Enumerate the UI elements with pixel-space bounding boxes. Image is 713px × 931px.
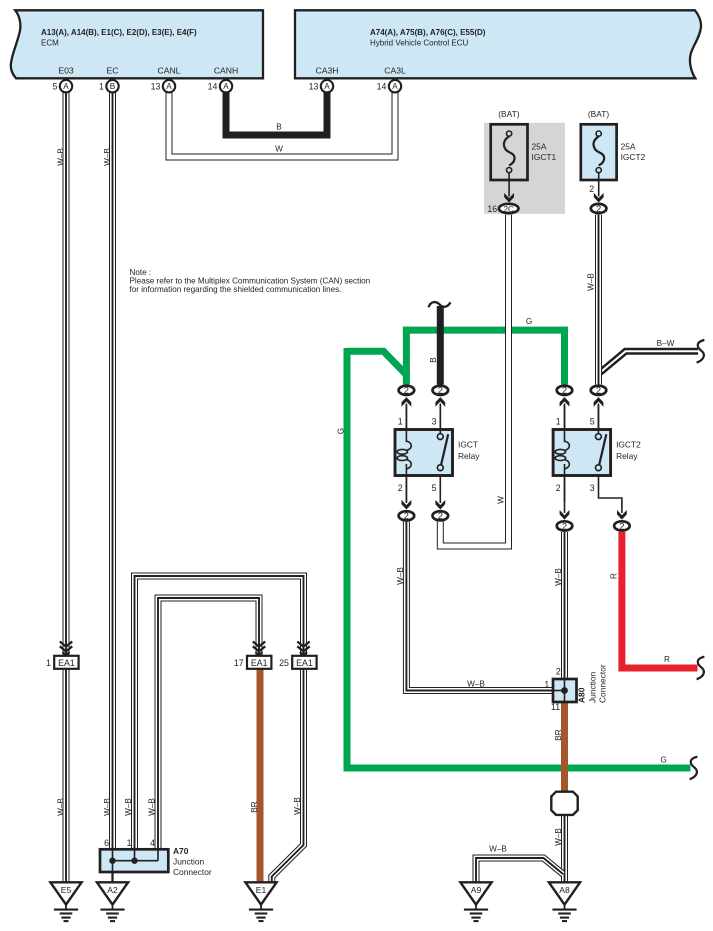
svg-text:25A: 25A (532, 142, 547, 152)
svg-text:R: R (664, 655, 670, 664)
svg-text:2: 2 (438, 510, 443, 521)
svg-text:EC: EC (107, 66, 119, 76)
svg-text:(BAT): (BAT) (588, 109, 609, 119)
svg-text:A9: A9 (471, 885, 482, 895)
svg-text:IGCT1: IGCT1 (532, 152, 557, 162)
svg-text:W–B: W–B (467, 679, 485, 688)
svg-text:W–B: W–B (148, 798, 157, 816)
svg-text:2C: 2C (504, 205, 514, 214)
svg-text:25: 25 (279, 658, 289, 668)
svg-text:3: 3 (590, 483, 595, 493)
svg-text:W–B: W–B (554, 828, 563, 846)
svg-text:B: B (110, 82, 116, 91)
svg-text:Relay: Relay (616, 451, 638, 461)
svg-text:5: 5 (432, 483, 437, 493)
svg-text:A: A (392, 82, 398, 91)
svg-text:2: 2 (398, 483, 403, 493)
svg-text:5: 5 (590, 417, 595, 427)
svg-text:1: 1 (398, 417, 403, 427)
svg-text:W–B: W–B (124, 798, 133, 816)
svg-text:3: 3 (432, 417, 437, 427)
svg-text:B–W: B–W (657, 339, 675, 348)
svg-text:R: R (609, 573, 618, 579)
svg-text:11: 11 (551, 702, 560, 712)
svg-text:1: 1 (127, 838, 132, 848)
svg-text:2: 2 (589, 184, 594, 194)
svg-text:2: 2 (596, 203, 601, 214)
svg-text:A74(A), A75(B), A76(C), E55(D): A74(A), A75(B), A76(C), E55(D) (370, 28, 486, 37)
svg-text:14: 14 (377, 82, 387, 92)
svg-text:1: 1 (544, 680, 549, 690)
svg-text:2: 2 (438, 385, 443, 396)
svg-text:13: 13 (309, 82, 319, 92)
svg-text:W: W (275, 145, 283, 154)
svg-text:6: 6 (104, 838, 109, 848)
svg-text:2: 2 (556, 667, 561, 677)
svg-text:1: 1 (556, 417, 561, 427)
svg-text:A13(A), A14(B), E1(C), E2(D),: A13(A), A14(B), E1(C), E2(D), E3(E), E4(… (41, 28, 197, 37)
svg-text:A: A (223, 82, 229, 91)
svg-text:IGCT: IGCT (458, 440, 478, 450)
svg-text:A: A (324, 82, 330, 91)
svg-text:Connector: Connector (598, 664, 608, 703)
svg-text:A: A (166, 82, 172, 91)
svg-text:2: 2 (404, 385, 409, 396)
svg-text:A: A (63, 82, 69, 91)
svg-text:14: 14 (208, 82, 218, 92)
svg-text:CA3L: CA3L (384, 66, 406, 76)
svg-text:2: 2 (562, 385, 567, 396)
svg-text:25A: 25A (621, 142, 636, 152)
svg-text:1: 1 (46, 658, 51, 668)
svg-text:Junction: Junction (173, 856, 205, 866)
svg-text:E1: E1 (256, 885, 267, 895)
svg-text:W–B: W–B (57, 148, 66, 166)
svg-text:G: G (660, 756, 666, 765)
svg-text:A8: A8 (559, 885, 570, 895)
svg-text:(BAT): (BAT) (498, 109, 519, 119)
svg-text:5: 5 (52, 82, 57, 92)
svg-text:W–B: W–B (57, 798, 66, 816)
svg-text:Junction: Junction (587, 671, 597, 703)
svg-text:1: 1 (99, 82, 104, 92)
svg-text:B: B (429, 357, 438, 363)
svg-text:IGCT2: IGCT2 (616, 440, 641, 450)
svg-text:17: 17 (234, 658, 244, 668)
svg-text:E03: E03 (58, 66, 74, 76)
svg-text:IGCT2: IGCT2 (621, 152, 646, 162)
svg-text:2: 2 (556, 483, 561, 493)
svg-text:EA1: EA1 (58, 658, 75, 668)
svg-text:for information regarding the: for information regarding the shielded c… (130, 285, 342, 294)
svg-text:W–B: W–B (554, 568, 563, 586)
svg-text:CANH: CANH (214, 66, 238, 76)
svg-text:A2: A2 (107, 885, 118, 895)
svg-text:2: 2 (619, 520, 624, 531)
svg-text:4: 4 (150, 838, 155, 848)
svg-text:EA1: EA1 (251, 658, 268, 668)
svg-text:Hybrid Vehicle Control ECU: Hybrid Vehicle Control ECU (370, 38, 468, 47)
svg-text:CA3H: CA3H (316, 66, 339, 76)
svg-text:EA1: EA1 (296, 658, 313, 668)
svg-text:W–B: W–B (103, 798, 112, 816)
svg-text:G: G (526, 317, 532, 326)
svg-text:2: 2 (562, 520, 567, 531)
svg-text:2: 2 (596, 385, 601, 396)
svg-text:2: 2 (404, 510, 409, 521)
svg-text:W: W (496, 496, 505, 504)
svg-text:W–B: W–B (489, 845, 507, 854)
svg-text:ECM: ECM (41, 38, 59, 47)
svg-text:W–B: W–B (103, 148, 112, 166)
svg-text:A80: A80 (577, 687, 587, 703)
svg-text:BR: BR (250, 801, 259, 812)
svg-text:BR: BR (554, 729, 563, 740)
svg-text:W–B: W–B (396, 567, 405, 585)
svg-text:W–B: W–B (586, 273, 595, 291)
svg-text:Relay: Relay (458, 451, 480, 461)
svg-text:E5: E5 (61, 885, 72, 895)
svg-text:G: G (336, 428, 345, 434)
svg-text:16: 16 (487, 204, 497, 214)
svg-text:B: B (276, 123, 282, 132)
svg-text:Connector: Connector (173, 867, 212, 877)
svg-text:W–B: W–B (293, 797, 302, 815)
svg-text:13: 13 (151, 82, 161, 92)
svg-text:CANL: CANL (158, 66, 181, 76)
svg-text:A70: A70 (173, 846, 189, 856)
